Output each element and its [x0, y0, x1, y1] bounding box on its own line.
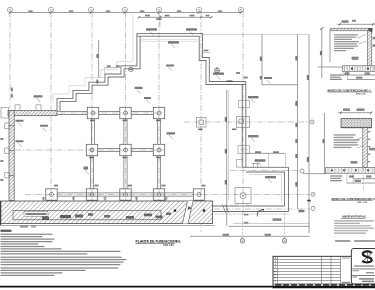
svg-text:MURO DE CONTENCION MC-2: MURO DE CONTENCION MC-2: [332, 197, 375, 201]
vertical grid centerlines (dash-dot): [10, 12, 243, 233]
anchor marks on strip top edge: [42, 197, 167, 201]
step dims 1.00 etc: [202, 50, 248, 83]
column footings with pedestals: [46, 107, 205, 202]
room right wall: [288, 167, 290, 211]
room top wall: [242, 166, 288, 168]
beam break marks: [223, 205, 226, 213]
north symbol: [215, 68, 220, 73]
grid bubbles row (axes 1-7) top: [8, 7, 244, 12]
room bottom wall / beam to strip: [213, 205, 285, 207]
horizontal grid centerlines (dash-dot): [15, 113, 310, 209]
retaining wall horizontal (hatched): [8, 111, 57, 116]
foundation wall right vertical (outer): [241, 85, 243, 168]
corner footing bump: [1, 108, 9, 119]
detail MC-2 retaining wall section: [303, 108, 375, 190]
note line above title block: [335, 240, 351, 242]
general notes text block: [1, 230, 127, 276]
svg-text:ESC 1:25: ESC 1:25: [356, 94, 366, 96]
top dimension line with ticks: [9, 10, 243, 13]
wall pier bump upper: [239, 100, 250, 107]
large room footing: [235, 188, 251, 204]
grid bubbles right edge: [300, 120, 315, 211]
isolated footings on row B: [197, 117, 250, 131]
wall pier bumps mid: [238, 146, 250, 154]
interior dimension chain x=227: [225, 90, 229, 226]
left/topcenter small dimension lines: [11, 14, 162, 98]
grade beams: [57, 111, 193, 196]
top room dimension tier: [138, 15, 213, 19]
stepped wall left descent (outer): [57, 33, 137, 110]
rebar callout labels: [16, 28, 277, 183]
north symbol 2: [129, 67, 133, 71]
bottom dimension chains with axis bubbles: [190, 213, 310, 243]
top room inner footing offset: [142, 39, 197, 41]
retaining wall vertical (hatched): [9, 111, 14, 201]
svg-text:ABREVIATURAS.: ABREVIATURAS.: [342, 215, 367, 219]
abbreviations list: [334, 215, 374, 234]
stepped wall left descent (inner): [60, 36, 140, 111]
leader hook to beam: [257, 210, 263, 217]
pilaster bumps on top wall: [15, 105, 20, 111]
stepped footing offset line: [53, 15, 133, 103]
title block small cell text: [342, 282, 351, 284]
pier on beam: [237, 203, 247, 206]
right side dimension chains: [203, 34, 311, 233]
foundation wall right vertical (inner): [245, 82, 247, 168]
foundation wall top-right run (inner line): [137, 36, 246, 84]
strip footing (hatched) along bottom: [0, 201, 215, 225]
dim text under strip left: [20, 226, 28, 228]
title block table: [273, 256, 375, 288]
svg-text:ESC 1:25: ESC 1:25: [358, 202, 368, 204]
room inner footing offset line: [249, 175, 282, 204]
dim bracket on room top wall: [253, 164, 255, 168]
pilasters on left wall: [5, 123, 10, 178]
title block logo box: [351, 249, 375, 284]
svg-text:PLANTA DE FUNDACIONES.: PLANTA DE FUNDACIONES.: [136, 239, 182, 243]
sheet bottom heavy line: [0, 286, 273, 288]
room top dimension line: [246, 151, 286, 167]
svg-text:ESC 1:50: ESC 1:50: [164, 245, 175, 247]
detail MC-1 retaining wall section: [318, 20, 375, 80]
foundation wall top-right run (outer line): [137, 33, 246, 81]
wall joint ticks: [9, 125, 15, 127]
footing tag marks above strip row: [0, 138, 205, 187]
wall corner bump: [237, 160, 243, 168]
beam lower offset line: [214, 213, 290, 215]
svg-text:MURO DE CONTENCION MC-1: MURO DE CONTENCION MC-1: [328, 88, 372, 92]
